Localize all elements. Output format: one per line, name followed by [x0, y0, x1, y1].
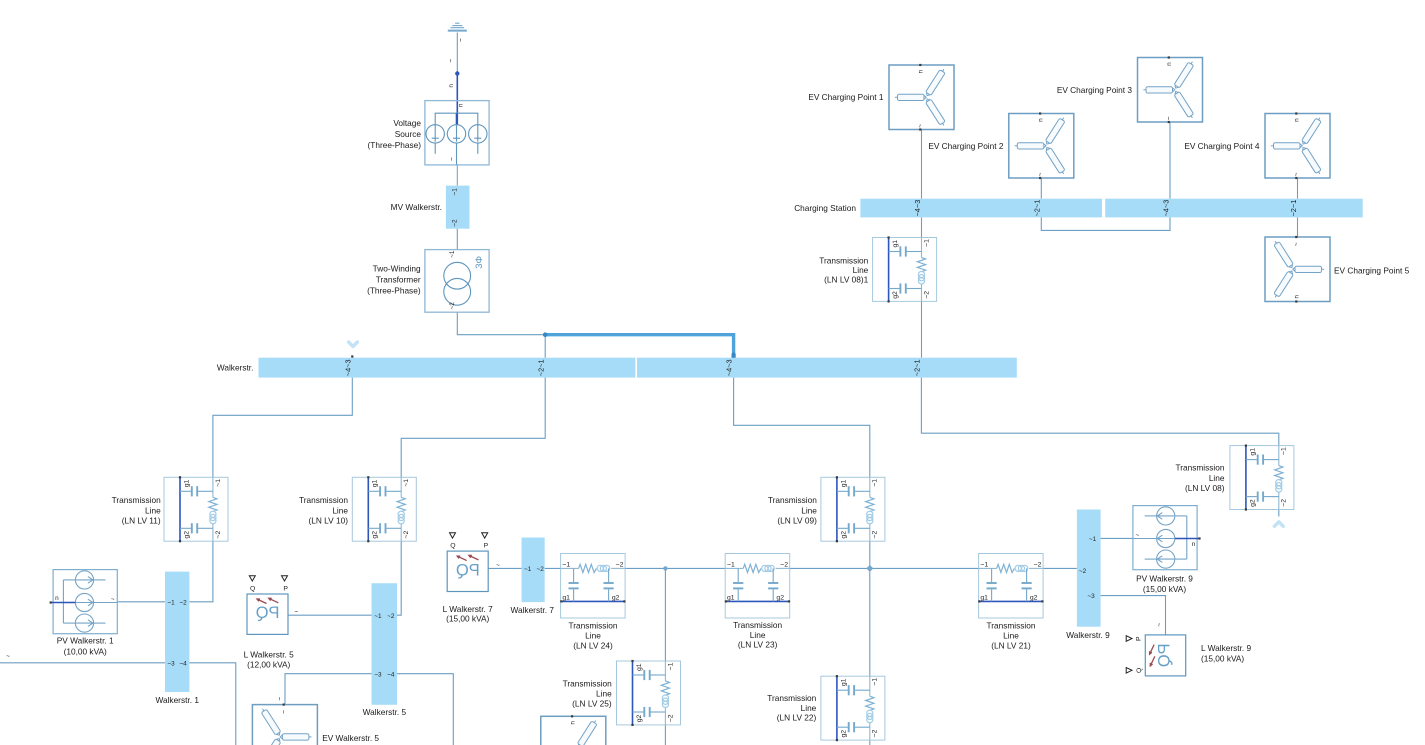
- svg-text:P: P: [283, 586, 288, 593]
- svg-text:~2: ~2: [1079, 568, 1087, 575]
- svg-text:~4: ~4: [179, 660, 187, 667]
- svg-text:~2: ~2: [451, 219, 458, 227]
- svg-text:n: n: [1192, 541, 1196, 548]
- svg-text:~1: ~1: [1089, 536, 1097, 543]
- svg-text:(LN LV 23): (LN LV 23): [738, 640, 778, 650]
- svg-text:(15,00 kVA): (15,00 kVA): [446, 614, 489, 624]
- svg-text:P: P: [484, 543, 489, 550]
- svg-text:Transmission: Transmission: [733, 620, 782, 630]
- svg-text:~: ~: [277, 697, 284, 701]
- svg-text:~: ~: [111, 596, 115, 603]
- svg-text:~4: ~4: [387, 671, 395, 678]
- svg-text:L Walkerstr. 9: L Walkerstr. 9: [1201, 643, 1251, 653]
- svg-text:~1: ~1: [167, 599, 175, 606]
- svg-text:~2~1: ~2~1: [537, 359, 546, 376]
- svg-text:(LN LV 08)1: (LN LV 08)1: [824, 274, 869, 284]
- svg-text:Line: Line: [332, 505, 348, 515]
- svg-text:P: P: [1136, 636, 1143, 641]
- svg-text:Line: Line: [1003, 631, 1019, 641]
- svg-text:Transmission: Transmission: [1175, 462, 1224, 472]
- svg-text:(Three-Phase): (Three-Phase): [368, 140, 422, 150]
- svg-text:~2: ~2: [387, 613, 395, 620]
- svg-text:~: ~: [1136, 532, 1140, 539]
- svg-text:n: n: [458, 103, 465, 107]
- svg-text:Charging Station: Charging Station: [794, 203, 856, 213]
- svg-text:Transmission: Transmission: [563, 678, 612, 688]
- svg-text:~1: ~1: [451, 188, 458, 196]
- svg-text:Transmission: Transmission: [568, 621, 617, 631]
- svg-text:(LN LV 10): (LN LV 10): [308, 516, 348, 526]
- svg-text:(LN LV 22): (LN LV 22): [777, 713, 817, 723]
- svg-text:Transformer: Transformer: [376, 275, 421, 285]
- svg-text:~1: ~1: [374, 613, 382, 620]
- svg-text:(10,00 kVA): (10,00 kVA): [64, 646, 107, 656]
- svg-text:(LN LV 09): (LN LV 09): [777, 516, 817, 526]
- svg-text:~3: ~3: [374, 671, 382, 678]
- svg-text:Line: Line: [750, 630, 766, 640]
- svg-text:Q: Q: [250, 586, 255, 593]
- svg-text:~3: ~3: [167, 660, 175, 667]
- svg-text:~2: ~2: [537, 566, 545, 573]
- svg-text:~2~1: ~2~1: [1289, 200, 1298, 217]
- svg-text:~2: ~2: [179, 599, 187, 606]
- svg-text:(LN LV 24): (LN LV 24): [573, 640, 613, 650]
- svg-text:(LN LV 08): (LN LV 08): [1185, 483, 1225, 493]
- svg-text:Line: Line: [596, 688, 612, 698]
- svg-text:(15,00 kVA): (15,00 kVA): [1201, 654, 1244, 664]
- svg-text:(12,00 kVA): (12,00 kVA): [247, 660, 290, 670]
- svg-text:Two-Winding: Two-Winding: [373, 264, 421, 274]
- svg-text:Line: Line: [801, 703, 817, 713]
- svg-text:Walkerstr.: Walkerstr.: [217, 363, 254, 373]
- svg-text:L Walkerstr. 5: L Walkerstr. 5: [244, 649, 294, 659]
- svg-text:n: n: [55, 595, 59, 602]
- svg-text:Walkerstr. 5: Walkerstr. 5: [363, 707, 407, 717]
- svg-text:EV Charging Point 3: EV Charging Point 3: [1057, 85, 1133, 95]
- svg-text:PV Walkerstr. 9: PV Walkerstr. 9: [1136, 574, 1193, 584]
- svg-text:EV Charging Point 5: EV Charging Point 5: [1334, 266, 1410, 276]
- svg-text:Voltage: Voltage: [393, 118, 421, 128]
- svg-text:EV Charging Point 4: EV Charging Point 4: [1184, 141, 1260, 151]
- svg-text:Line: Line: [585, 631, 601, 641]
- svg-text:~3: ~3: [1087, 593, 1095, 600]
- svg-text:EV Charging Point 1: EV Charging Point 1: [808, 92, 884, 102]
- svg-text:~4~3: ~4~3: [344, 359, 353, 376]
- svg-text:~: ~: [457, 38, 464, 42]
- svg-text:Transmission: Transmission: [768, 495, 817, 505]
- svg-text:Q: Q: [450, 543, 455, 550]
- svg-text:~: ~: [496, 562, 500, 569]
- svg-text:Transmission: Transmission: [819, 255, 868, 265]
- svg-text:~4~3: ~4~3: [1161, 200, 1170, 217]
- svg-text:~2: ~2: [449, 302, 456, 310]
- svg-text:~: ~: [294, 609, 298, 616]
- svg-text:Transmission: Transmission: [299, 495, 348, 505]
- svg-text:~1: ~1: [524, 566, 532, 573]
- svg-text:~: ~: [6, 653, 10, 660]
- svg-text:Transmission: Transmission: [986, 621, 1035, 631]
- svg-text:(15,00 kVA): (15,00 kVA): [1143, 584, 1186, 594]
- svg-text:~: ~: [1156, 623, 1163, 627]
- svg-text:MV Walkerstr.: MV Walkerstr.: [391, 202, 442, 212]
- svg-text:L Walkerstr. 7: L Walkerstr. 7: [443, 604, 493, 614]
- svg-text:(LN LV 11): (LN LV 11): [122, 516, 161, 526]
- svg-text:Line: Line: [1209, 473, 1225, 483]
- svg-text:Line: Line: [145, 505, 161, 515]
- svg-text:~1: ~1: [449, 250, 456, 258]
- svg-text:~2~1: ~2~1: [913, 359, 922, 376]
- svg-text:~: ~: [447, 59, 454, 63]
- svg-text:~2~1: ~2~1: [1033, 200, 1042, 217]
- svg-text:EV Charging Point 2: EV Charging Point 2: [928, 141, 1004, 151]
- svg-text:Line: Line: [801, 505, 817, 515]
- svg-text:Walkerstr. 9: Walkerstr. 9: [1066, 630, 1110, 640]
- svg-text:~: ~: [448, 157, 455, 161]
- svg-text:~4~3: ~4~3: [725, 359, 734, 376]
- svg-text:Transmission: Transmission: [112, 495, 161, 505]
- svg-text:Walkerstr. 1: Walkerstr. 1: [155, 695, 199, 705]
- svg-text:3Φ: 3Φ: [474, 255, 485, 268]
- svg-text:PV Walkerstr. 1: PV Walkerstr. 1: [57, 635, 114, 645]
- svg-text:EV Walkerstr. 5: EV Walkerstr. 5: [322, 733, 379, 743]
- svg-text:~4~3: ~4~3: [913, 200, 922, 217]
- svg-text:(LN LV 25): (LN LV 25): [572, 699, 612, 709]
- svg-text:Line: Line: [853, 265, 869, 275]
- svg-text:Transmission: Transmission: [767, 693, 816, 703]
- svg-text:Source: Source: [395, 129, 422, 139]
- svg-text:Q: Q: [1136, 668, 1143, 673]
- svg-text:Walkerstr. 7: Walkerstr. 7: [510, 605, 554, 615]
- svg-text:n: n: [448, 84, 455, 88]
- svg-text:(Three-Phase): (Three-Phase): [367, 286, 421, 296]
- svg-text:(LN LV 21): (LN LV 21): [991, 640, 1031, 650]
